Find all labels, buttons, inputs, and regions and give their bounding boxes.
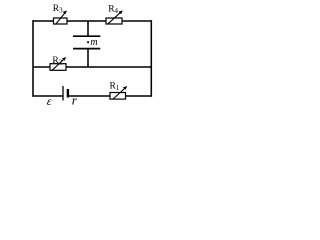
wire: middle row, left segment (left branch to R2) xyxy=(33,66,50,68)
resistor R3 (variable, on top-left) xyxy=(53,4,67,25)
svg-text:R3: R3 xyxy=(53,4,63,15)
resistor R2 (variable, on middle row) xyxy=(50,56,66,71)
wire: right vertical branch xyxy=(150,20,152,97)
wire: left vertical branch xyxy=(32,20,34,97)
wire: top side, middle segment (R3 to R4) xyxy=(67,20,106,22)
wire: bottom row, middle segment (battery to R1) xyxy=(69,95,111,97)
capacitor (parallel plates, centre) xyxy=(73,21,100,68)
wire: middle row, right segment (R2 to right branch) xyxy=(66,66,151,68)
svg-text:R1: R1 xyxy=(110,81,120,92)
wire: bottom row, right segment (R1 to right branch) xyxy=(126,95,152,97)
resistor R1 (variable, on bottom row) xyxy=(110,81,128,99)
label: emf epsilon of battery xyxy=(47,94,52,108)
wire: top side, left segment (top-left corner to R3) xyxy=(33,20,54,22)
battery (cell, on bottom row) xyxy=(63,86,68,101)
svg-text:R4: R4 xyxy=(108,5,118,16)
svg-text:ε: ε xyxy=(47,94,52,108)
svg-text:R2: R2 xyxy=(52,56,62,67)
node: charged particle between plates xyxy=(87,41,89,43)
resistor R4 (variable, on top-right) xyxy=(106,5,123,25)
svg-text:m: m xyxy=(90,37,97,48)
wire: bottom row, left segment (left branch to battery) xyxy=(33,95,63,97)
wire: top side, right segment (R4 to top-right corner) xyxy=(122,20,152,22)
label: internal resistance r of battery xyxy=(72,93,78,108)
label: particle mass m xyxy=(90,37,97,48)
